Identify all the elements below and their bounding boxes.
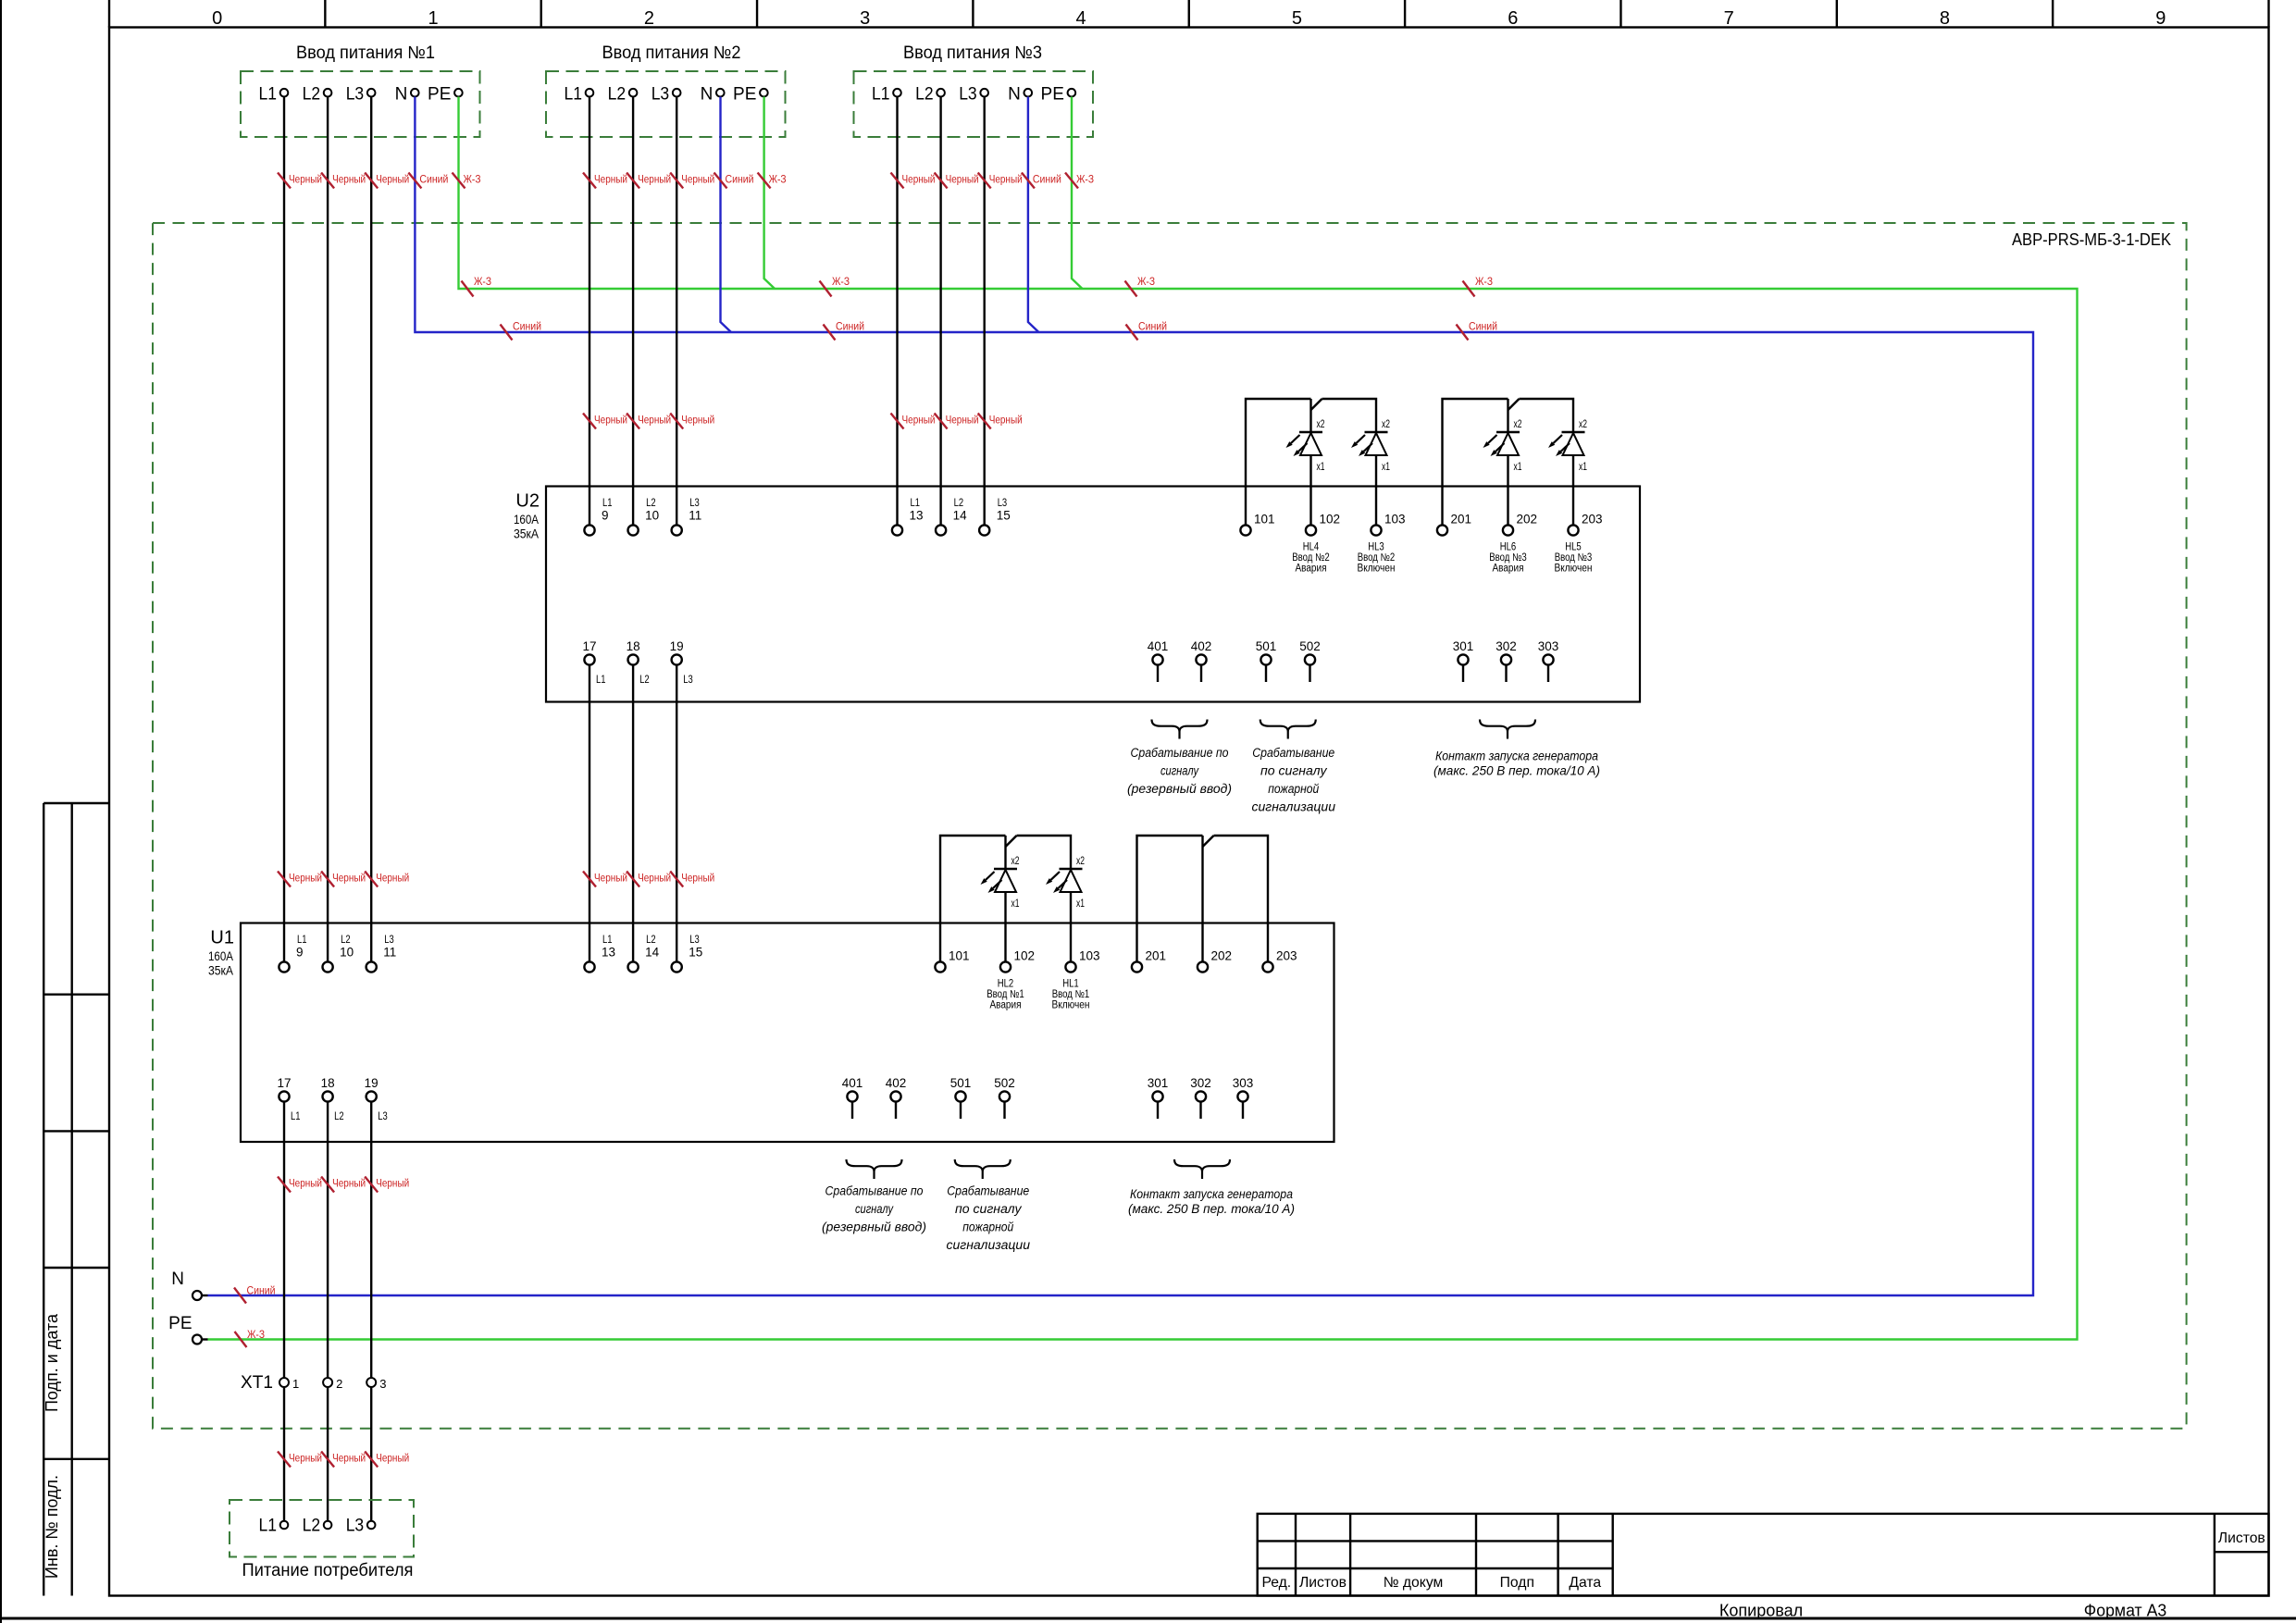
brace terminals 501-502 U1 (955, 1159, 1011, 1179)
wire marking Черный x=1063.7 row A (978, 173, 991, 189)
svg-text:Черный: Черный (594, 173, 627, 186)
wire marking Черный x=637 row A (583, 173, 596, 189)
svg-text:301: 301 (1453, 639, 1474, 653)
wire marking Ж-З on PE bus x=892 (820, 281, 832, 297)
svg-text:Черный: Черный (638, 414, 671, 427)
svg-text:Черный: Черный (681, 872, 714, 885)
enclosure АВР-PRS-МБ-3-1-DEK (dashed) (153, 223, 2187, 1429)
wire rail to HL1 (1017, 836, 1072, 869)
svg-text:PE: PE (168, 1314, 192, 1333)
wire PE input2 (Ж-З) join to bus (764, 97, 776, 290)
svg-text:6: 6 (1508, 8, 1518, 29)
svg-text:XT1: XT1 (241, 1373, 273, 1393)
svg-text:L2: L2 (303, 85, 321, 105)
wire marking Черный x=307 row C (278, 872, 291, 887)
svg-text:8: 8 (1940, 8, 1950, 29)
svg-text:35кА: 35кА (514, 527, 539, 541)
svg-text:Ввод №3: Ввод №3 (1489, 552, 1527, 564)
wire marking Черный x=684.1 row A (627, 173, 639, 189)
svg-text:502: 502 (1299, 639, 1321, 653)
svg-text:1: 1 (292, 1377, 299, 1391)
svg-text:Ж-З: Ж-З (1137, 275, 1155, 288)
svg-text:Черный: Черный (594, 872, 627, 885)
svg-text:L1: L1 (297, 935, 307, 946)
svg-text:Инв. № подл.: Инв. № подл. (43, 1475, 61, 1579)
wire HL1 cathode to U1:103 (1070, 892, 1072, 961)
svg-text:Черный: Черный (594, 414, 627, 427)
svg-text:10: 10 (645, 509, 659, 523)
svg-text:L3: L3 (683, 675, 693, 686)
svg-text:103: 103 (1079, 949, 1100, 963)
svg-text:x2: x2 (1579, 419, 1587, 430)
svg-text:502: 502 (994, 1076, 1015, 1090)
svg-text:302: 302 (1496, 639, 1517, 653)
svg-text:201: 201 (1146, 949, 1167, 963)
wire marking Черный x=731.2 row A (670, 173, 683, 189)
svg-text:303: 303 (1233, 1076, 1254, 1090)
wire U2:17 to U1:13 (Черный) (589, 665, 590, 962)
svg-text:Ввод №1: Ввод №1 (987, 989, 1024, 1000)
svg-text:202: 202 (1517, 513, 1538, 527)
svg-text:N: N (171, 1270, 184, 1289)
svg-text:9: 9 (2155, 8, 2166, 29)
svg-text:Черный: Черный (638, 173, 671, 186)
svg-text:(резервный ввод): (резервный ввод) (822, 1220, 926, 1235)
brace terminals 301-303 U2 (1480, 720, 1535, 739)
wire PE input3 (Ж-З) join to bus (1072, 97, 1083, 290)
svg-text:3: 3 (379, 1377, 386, 1391)
svg-text:HL2: HL2 (998, 978, 1014, 989)
wire HL4 cathode to U2:102 (1309, 455, 1311, 525)
svg-text:17: 17 (582, 639, 596, 653)
svg-text:N: N (1008, 85, 1021, 105)
title block grid (1258, 1514, 2269, 1596)
svg-text:HL6: HL6 (1500, 541, 1517, 552)
svg-text:L3: L3 (346, 85, 365, 105)
svg-text:1: 1 (428, 8, 438, 29)
wire marking Черный x=1016.6 row B (935, 414, 948, 429)
svg-text:Формат А3: Формат А3 (2084, 1602, 2167, 1620)
svg-text:Копировал: Копировал (1719, 1602, 1803, 1620)
svg-text:сигналу: сигналу (855, 1202, 894, 1217)
wire marking Ж-З input1 (453, 173, 465, 189)
svg-text:Синий: Синий (726, 173, 754, 186)
LED HL2 (994, 868, 1017, 870)
svg-text:Черный: Черный (332, 1452, 366, 1465)
svg-text:Ввод №2: Ввод №2 (1292, 552, 1330, 564)
svg-text:(макс. 250 В пер. тока/10 А): (макс. 250 В пер. тока/10 А) (1128, 1202, 1295, 1217)
svg-text:15: 15 (997, 509, 1011, 523)
svg-text:101: 101 (1254, 513, 1275, 527)
wire jog at U1:202 (1203, 836, 1214, 847)
svg-text:L2: L2 (341, 935, 351, 946)
svg-text:x1: x1 (1317, 462, 1325, 473)
wire marking Ж-З on PE bus x=505 (462, 281, 474, 297)
svg-text:35кА: 35кА (208, 964, 233, 978)
terminal XT1:3 (366, 1378, 376, 1387)
wire marking Черный x=969.5 row B (891, 414, 904, 429)
wire marking Ж-З on PE bus x=1587 (1463, 281, 1475, 297)
wire jog to HL2 (1006, 836, 1017, 847)
wire marking Черный x=684.1 row C (627, 872, 639, 887)
svg-text:x1: x1 (1011, 898, 1020, 910)
svg-text:Подп. и дата: Подп. и дата (43, 1313, 61, 1412)
svg-text:L1: L1 (602, 498, 613, 509)
page outer border bottom (0, 1617, 2296, 1620)
wire U2:201 feed rail (1443, 399, 1508, 525)
page outer border left (0, 0, 2, 1623)
svg-text:U2: U2 (515, 491, 540, 512)
wire U2:19 to U1:15 (Черный) (676, 665, 677, 962)
svg-text:201: 201 (1451, 513, 1472, 527)
svg-text:Синий: Синий (836, 320, 864, 333)
svg-text:10: 10 (340, 946, 354, 960)
wire HL2 cathode to U1:102 (1004, 892, 1006, 961)
brace terminals 301-303 U1 (1174, 1159, 1230, 1179)
svg-text:L3: L3 (689, 935, 700, 946)
wire input3 L2 to U2:14 (Черный) (939, 97, 941, 526)
svg-text:Синий: Синий (1138, 320, 1167, 333)
svg-text:Ввод №3: Ввод №3 (1555, 552, 1593, 564)
input box Ввод питания №2 (dashed) (546, 71, 786, 137)
svg-text:202: 202 (1211, 949, 1233, 963)
svg-text:102: 102 (1014, 949, 1036, 963)
svg-text:Синий: Синий (513, 320, 541, 333)
wire U2:18 to U1:14 (Черный) (632, 665, 634, 962)
wire marking Черный x=307 row D (278, 1177, 291, 1193)
LED HL5 (1562, 431, 1585, 433)
svg-text:HL3: HL3 (1368, 541, 1384, 552)
svg-text:(резервный ввод): (резервный ввод) (1127, 782, 1232, 797)
svg-text:Черный: Черный (376, 1177, 409, 1190)
svg-text:Ж-З: Ж-З (464, 173, 481, 186)
wire marking Черный x=684.1 row B (627, 414, 639, 429)
svg-text:Ввод №1: Ввод №1 (1052, 989, 1090, 1000)
wire rail to U1:203 (1214, 836, 1269, 961)
svg-text:19: 19 (670, 639, 684, 653)
device U2 (АВР switch box) (546, 487, 1640, 702)
svg-text:402: 402 (886, 1076, 907, 1090)
svg-text:0: 0 (212, 8, 222, 29)
svg-text:Черный: Черный (376, 173, 409, 186)
wire input2 L1 to U2:9 (Черный) (589, 97, 590, 526)
svg-text:x2: x2 (1382, 419, 1390, 430)
svg-text:Черный: Черный (946, 414, 979, 427)
svg-text:U1: U1 (210, 928, 234, 948)
wire U1:19 to XT1:3 (Черный) (370, 1102, 372, 1378)
svg-text:19: 19 (365, 1076, 379, 1090)
svg-text:Ввод питания №2: Ввод питания №2 (602, 43, 741, 63)
svg-text:N: N (395, 85, 408, 105)
svg-text:L2: L2 (608, 85, 627, 105)
svg-text:Срабатывание: Срабатывание (1252, 746, 1334, 761)
terminal XT1:2 (323, 1378, 332, 1387)
wire marking Синий input1 (408, 173, 421, 189)
svg-text:L2: L2 (646, 498, 656, 509)
wire N input2 (Синий) join to bus (721, 97, 732, 333)
svg-text:5: 5 (1292, 8, 1302, 29)
svg-text:по сигналу: по сигналу (1260, 764, 1327, 779)
svg-text:сигнализации: сигнализации (1252, 800, 1336, 815)
svg-text:L1: L1 (602, 935, 613, 946)
wire marking Черный x=354.1 row D (321, 1177, 334, 1193)
svg-text:x2: x2 (1011, 856, 1020, 867)
svg-text:x1: x1 (1076, 898, 1085, 910)
svg-text:по сигналу: по сигналу (955, 1202, 1022, 1217)
svg-text:4: 4 (1076, 8, 1086, 29)
svg-text:x2: x2 (1317, 419, 1325, 430)
svg-text:Авария: Авария (990, 999, 1022, 1010)
svg-text:L3: L3 (998, 498, 1008, 509)
svg-text:L3: L3 (652, 85, 670, 105)
LED HL4 (1299, 431, 1322, 433)
brace terminals 501-502 U2 (1260, 720, 1316, 739)
wire marking Черный x=969.5 row A (891, 173, 904, 189)
wire input1 L2 to U1:10 (Черный) (327, 97, 329, 962)
wire XT1:2 to consumer L2 (Черный) (327, 1387, 329, 1521)
svg-text:Черный: Черный (681, 414, 714, 427)
wire marking Черный x=1016.6 row A (935, 173, 948, 189)
wire rail to HL5 (1520, 399, 1574, 432)
svg-text:Черный: Черный (902, 173, 936, 186)
svg-text:Черный: Черный (376, 1452, 409, 1465)
svg-text:Ж-З: Ж-З (474, 275, 491, 288)
svg-text:18: 18 (627, 639, 640, 653)
svg-text:Авария: Авария (1493, 563, 1524, 574)
svg-text:Включен: Включен (1052, 999, 1090, 1010)
svg-text:Черный: Черный (902, 414, 936, 427)
svg-text:203: 203 (1276, 949, 1297, 963)
svg-text:L2: L2 (915, 85, 934, 105)
wire input1 L3 to U1:11 (Черный) (370, 97, 372, 962)
svg-text:L2: L2 (646, 935, 656, 946)
svg-text:Ж-З: Ж-З (1475, 275, 1493, 288)
left margin signature strip (43, 803, 44, 1596)
wire U1:201 feed rail (1137, 836, 1203, 961)
svg-text:x2: x2 (1076, 856, 1085, 867)
ruler column ticks (108, 0, 110, 28)
svg-text:Включен: Включен (1555, 563, 1593, 574)
svg-text:Срабатывание по: Срабатывание по (1131, 746, 1229, 761)
wire marking Черный x=401.2 row C (365, 872, 378, 887)
svg-text:9: 9 (602, 509, 609, 523)
svg-text:Черный: Черный (638, 872, 671, 885)
svg-text:7: 7 (1724, 8, 1734, 29)
wire marking Синий on N bus x=1223 (1126, 325, 1138, 341)
svg-text:Листов: Листов (1299, 1575, 1347, 1591)
LED HL3 (1365, 431, 1388, 433)
wire marking Ж-З on PE bus x=1222 (1125, 281, 1137, 297)
svg-text:Синий: Синий (419, 173, 448, 186)
wire N input3 (Синий) join to bus (1028, 97, 1039, 333)
svg-text:Ввод №2: Ввод №2 (1358, 552, 1396, 564)
brace terminals 401-402 U2 (1152, 720, 1208, 739)
svg-text:Черный: Черный (289, 1452, 322, 1465)
svg-text:Черный: Черный (289, 1177, 322, 1190)
svg-text:Синий: Синий (1033, 173, 1061, 186)
svg-text:HL5: HL5 (1565, 541, 1582, 552)
svg-text:13: 13 (602, 946, 615, 960)
svg-text:17: 17 (277, 1076, 291, 1090)
LED HL6 (1496, 431, 1520, 433)
wire input3 L3 to U2:15 (Черный) (983, 97, 985, 526)
wire HL6 anode (1507, 399, 1508, 432)
wire U2:101 feed rail (1246, 399, 1311, 525)
svg-text:L2: L2 (954, 498, 964, 509)
wire marking Черный x=401.2 row E (365, 1452, 378, 1468)
svg-text:x1: x1 (1579, 462, 1587, 473)
wire marking Ж-З input2 (758, 173, 771, 189)
wire input1 L1 to U1:9 (Черный) (283, 97, 285, 962)
svg-text:Ввод питания №1: Ввод питания №1 (296, 43, 435, 63)
svg-text:Контакт запуска генератора: Контакт запуска генератора (1435, 750, 1598, 764)
wire XT1:3 to consumer L3 (Черный) (370, 1387, 372, 1521)
svg-text:401: 401 (1148, 639, 1169, 653)
svg-text:203: 203 (1582, 513, 1603, 527)
svg-text:сигналу: сигналу (1160, 764, 1199, 779)
wire input2 L2 to U2:10 (Черный) (632, 97, 634, 526)
svg-text:Черный: Черный (332, 872, 366, 885)
svg-text:L3: L3 (346, 1517, 365, 1536)
svg-text:Черный: Черный (946, 173, 979, 186)
wire marking Синий input2 (714, 173, 727, 189)
brace terminals 401-402 U1 (847, 1159, 902, 1179)
svg-text:АВР-PRS-МБ-3-1-DEK: АВР-PRS-МБ-3-1-DEK (2012, 230, 2171, 249)
svg-text:Ж-З: Ж-З (247, 1328, 265, 1341)
LED HL1 (1060, 868, 1083, 870)
svg-text:14: 14 (953, 509, 968, 523)
svg-text:303: 303 (1538, 639, 1559, 653)
wire marking Синий on N output (234, 1288, 246, 1304)
svg-text:PE: PE (428, 85, 451, 105)
svg-text:пожарной: пожарной (962, 1220, 1013, 1235)
wire HL4 anode (1309, 399, 1311, 432)
svg-text:302: 302 (1190, 1076, 1211, 1090)
wire marking Черный x=1063.7 row B (978, 414, 991, 429)
wire marking Синий input3 (1022, 173, 1035, 189)
svg-text:160А: 160А (514, 513, 539, 527)
wire marking Черный x=401.2 row A (365, 173, 378, 189)
svg-text:Черный: Черный (289, 872, 322, 885)
wire marking Черный x=637 row B (583, 414, 596, 429)
wire HL5 cathode to U2:203 (1572, 455, 1574, 525)
svg-text:HL4: HL4 (1303, 541, 1320, 552)
svg-text:Синий: Синий (247, 1284, 276, 1297)
wire HL6 cathode to U2:202 (1507, 455, 1508, 525)
svg-text:PE: PE (1041, 85, 1064, 105)
svg-text:Черный: Черный (989, 414, 1023, 427)
wire jog to HL4 (1311, 399, 1322, 410)
svg-text:сигнализации: сигнализации (947, 1238, 1031, 1253)
svg-text:Срабатывание по: Срабатывание по (825, 1184, 924, 1199)
wire marking Черный x=307 row E (278, 1452, 291, 1468)
wire U1:101 feed rail (940, 836, 1006, 961)
svg-text:501: 501 (1256, 639, 1277, 653)
svg-text:9: 9 (296, 946, 304, 960)
wire XT1:1 to consumer L1 (Черный) (283, 1387, 285, 1521)
svg-text:501: 501 (950, 1076, 972, 1090)
svg-text:15: 15 (689, 946, 702, 960)
svg-text:L1: L1 (872, 85, 890, 105)
wire marking Синий on N bus x=896 (824, 325, 836, 341)
svg-text:301: 301 (1148, 1076, 1169, 1090)
wire input2 L3 to U2:11 (Черный) (676, 97, 677, 526)
wire marking Черный x=731.2 row B (670, 414, 683, 429)
svg-text:L1: L1 (596, 675, 606, 686)
wire marking Ж-З on PE output (235, 1332, 247, 1347)
svg-text:L2: L2 (639, 675, 650, 686)
svg-text:11: 11 (689, 509, 701, 523)
svg-text:Ред.: Ред. (1261, 1575, 1291, 1591)
svg-text:Черный: Черный (989, 173, 1023, 186)
wire marking Черный x=354.1 row E (321, 1452, 334, 1468)
svg-text:№ докум: № докум (1384, 1575, 1444, 1591)
wire marking Черный x=354.1 row C (321, 872, 334, 887)
svg-text:HL1: HL1 (1062, 978, 1079, 989)
svg-text:401: 401 (842, 1076, 863, 1090)
svg-text:Черный: Черный (681, 173, 714, 186)
input box Ввод питания №1 (dashed) (241, 71, 480, 137)
svg-text:L1: L1 (565, 85, 583, 105)
wire N bus (Синий) from input1 to N output (208, 97, 2034, 1296)
svg-text:Ж-З: Ж-З (769, 173, 787, 186)
wire jog at U2:202 (1508, 399, 1520, 410)
svg-text:Питание потребителя: Питание потребителя (242, 1561, 414, 1580)
device U1 (АВР switch box) (241, 923, 1334, 1143)
svg-text:L3: L3 (378, 1111, 388, 1122)
wire marking Ж-З input3 (1065, 173, 1078, 189)
svg-text:14: 14 (645, 946, 660, 960)
wire marking Черный x=307 row A (278, 173, 291, 189)
svg-text:Авария: Авария (1296, 563, 1327, 574)
wire HL3 cathode to U2:103 (1375, 455, 1377, 525)
svg-text:Черный: Черный (376, 872, 409, 885)
wire marking Черный x=401.2 row D (365, 1177, 378, 1193)
svg-text:Ж-З: Ж-З (1076, 173, 1094, 186)
svg-text:Черный: Черный (289, 173, 322, 186)
svg-text:Включен: Включен (1358, 563, 1396, 574)
svg-text:L1: L1 (291, 1111, 301, 1122)
svg-text:2: 2 (336, 1377, 342, 1391)
wire U1:202 drop (1201, 836, 1203, 961)
svg-text:Ввод питания №3: Ввод питания №3 (903, 43, 1042, 63)
svg-text:L1: L1 (259, 1517, 278, 1536)
svg-text:N: N (701, 85, 714, 105)
svg-text:Подп: Подп (1500, 1575, 1534, 1591)
svg-text:Срабатывание: Срабатывание (947, 1184, 1029, 1199)
svg-text:18: 18 (321, 1076, 335, 1090)
svg-text:Контакт запуска генератора: Контакт запуска генератора (1130, 1187, 1293, 1202)
svg-text:3: 3 (860, 8, 870, 29)
svg-text:(макс. 250 В пер. тока/10 А): (макс. 250 В пер. тока/10 А) (1433, 763, 1600, 778)
svg-text:402: 402 (1191, 639, 1212, 653)
svg-text:11: 11 (383, 946, 396, 960)
svg-text:101: 101 (949, 949, 970, 963)
consumer box Питание потребителя (dashed) (230, 1500, 414, 1557)
wire input3 L1 to U2:13 (Черный) (896, 97, 898, 526)
wire marking Черный x=354.1 row A (321, 173, 334, 189)
wire rail to HL3 (1322, 399, 1377, 432)
svg-text:L1: L1 (911, 498, 921, 509)
svg-text:Ж-З: Ж-З (832, 275, 850, 288)
input box Ввод питания №3 (dashed) (854, 71, 1094, 137)
svg-text:x1: x1 (1514, 462, 1522, 473)
wire marking Черный x=637 row C (583, 872, 596, 887)
wire HL2 anode (1004, 836, 1006, 869)
svg-text:L3: L3 (689, 498, 700, 509)
svg-text:Черный: Черный (332, 1177, 366, 1190)
svg-text:L3: L3 (384, 935, 394, 946)
